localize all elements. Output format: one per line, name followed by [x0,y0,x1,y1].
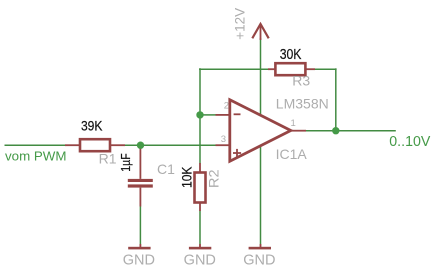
+12V arrow head [252,24,268,38]
op-amp U1 IC1A [216,95,329,162]
svg-text:R1: R1 [99,151,117,167]
R1 pin 1 lead [65,144,80,146]
+12V pin stub [260,25,262,40]
wire output net [306,130,396,132]
svg-text:C1: C1 [157,161,175,177]
GND1 pin stub [139,244,141,247]
svg-text:IC1A: IC1A [276,146,308,162]
junction node feedback/pin2/R2 [196,111,203,118]
wire net from PWM input to R1 [5,144,66,146]
svg-text:39K: 39K [81,118,103,134]
C1 pin 1 lead [139,145,141,179]
ground symbol GND3 (below op-amp) [243,244,275,269]
svg-text:1: 1 [291,118,296,129]
resistor R2 [178,163,221,211]
svg-text:2: 2 [224,100,229,111]
GND1 bar [128,247,150,250]
wire feedback vertical left segment [199,68,201,115]
svg-text:GND: GND [123,253,155,269]
op-amp pin 3 lead [216,144,231,146]
svg-text:R3: R3 [292,72,310,88]
R2 pin 1 lead [199,163,201,173]
GND2 bar [189,247,211,250]
wire net C1 lower to GND [139,207,141,245]
wire R2 net upper segment [199,115,201,164]
C1 top plate [128,179,153,182]
C1 bottom plate [128,184,153,187]
junction node R1/C1/pin3 [137,142,144,149]
svg-text:1µF: 1µF [119,153,133,172]
svg-text:+12V: +12V [232,8,247,40]
op-amp triangle body [230,100,291,161]
+12V supply symbol [232,8,268,40]
svg-text:3: 3 [221,134,226,145]
R3 pin 1 lead [268,68,275,70]
op-amp pin 2 lead [216,114,231,116]
wire net junction to op-amp pin 2 [200,114,216,116]
op-amp inverting input minus mark [234,113,241,115]
R1 pin 2 lead [110,144,125,146]
R3 pin 2 lead [305,68,315,70]
resistor R3 [268,47,315,89]
wire op-amp ground vertical [260,146,262,244]
R2 pin 2 lead [199,203,201,212]
R3 body [275,63,305,75]
wire feedback vertical right segment [335,68,337,130]
R1 body [80,139,110,151]
wire feedback horizontal to R3 [199,68,268,70]
svg-text:vom PWM: vom PWM [5,149,67,163]
svg-text:0..10V: 0..10V [389,134,430,150]
svg-text:R2: R2 [205,169,221,188]
ground symbol GND1 (below C1) [123,244,155,269]
ground symbol GND2 (below R2) [184,244,216,269]
GND3 bar [249,247,271,250]
svg-text:LM358N: LM358N [276,95,329,111]
junction node output/feedback [332,127,339,134]
GND3 pin stub [260,244,262,247]
wire net R1 to junction to op-amp pin 3 [125,144,216,146]
wire R3 to feedback corner right [315,68,337,70]
C1 pin 2 lead [139,188,141,207]
svg-text:10K: 10K [178,166,194,188]
op-amp pin 1 output lead [291,130,306,132]
R2 body [195,173,206,203]
GND2 pin stub [199,244,201,247]
wire R2 net lower segment to GND [199,211,201,245]
resistor R1 [65,118,125,167]
svg-text:30K: 30K [280,47,302,63]
svg-text:GND: GND [184,253,216,269]
wire +12V supply vertical [260,38,262,116]
capacitor C1 [119,145,175,206]
op-amp non-inverting input plus mark [233,152,241,154]
svg-text:GND: GND [243,253,275,269]
